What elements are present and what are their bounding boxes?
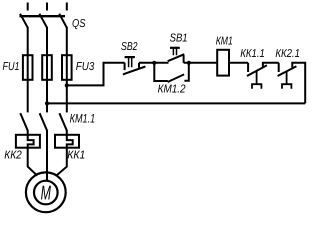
- supply terminal L3: [66, 3, 68, 11]
- thermal relay KK1 heater meander: [67, 135, 73, 148]
- svg-text:КК1: КК1: [67, 149, 85, 161]
- contact KK2.1 right terminal: [291, 64, 293, 68]
- fuse FU1: [23, 55, 33, 80]
- button SB1 right terminal: [183, 55, 185, 63]
- wire SB2 to SB1: [139, 62, 169, 64]
- fuse FU2: [42, 55, 52, 80]
- svg-text:КМ1.2: КМ1.2: [158, 84, 187, 96]
- switch QS pole 1 blade: [20, 14, 28, 28]
- wire KK1 to motor: [57, 148, 67, 176]
- wire L3 QS to fuse: [66, 27, 68, 55]
- thermal relay KK2 heater meander: [28, 135, 34, 148]
- contact KK1.1 thermal element: [252, 71, 261, 89]
- contactor KM1.1 pole 3 blade: [59, 113, 66, 130]
- svg-text:КК2.1: КК2.1: [275, 48, 300, 60]
- button SB2 left terminal: [124, 63, 126, 70]
- coil KM1: [217, 50, 229, 76]
- contact KK2.1 thermal element: [282, 71, 291, 89]
- wire L1 fuse to KM1.1: [27, 55, 29, 112]
- contactor KM1.1 pole 1 blade: [20, 113, 27, 130]
- contact KM1.2 left branch wire: [154, 63, 168, 81]
- contact KK2.1 blade: [278, 66, 297, 76]
- wire L2 QS to fuse: [46, 27, 48, 55]
- node KM1.2 branch left: [152, 61, 156, 65]
- contact KM1.2 blade: [168, 74, 185, 82]
- wire L1 QS to fuse: [27, 27, 29, 55]
- contact KK2.1 left terminal: [278, 63, 280, 72]
- switch QS pole 3 blade: [59, 14, 67, 28]
- svg-text:FU1: FU1: [3, 61, 20, 73]
- svg-text:КК2: КК2: [4, 149, 22, 161]
- node control tap phase 2: [45, 101, 49, 105]
- wire L1 KM1.1 to KK2: [27, 130, 29, 135]
- supply terminal L1: [27, 3, 29, 11]
- wire KK1.1 to KK2.1: [262, 62, 279, 64]
- wire control feed from phase3 tap: [67, 63, 125, 86]
- button SB1 plunger stem: [173, 48, 176, 55]
- svg-text:M: M: [41, 183, 52, 205]
- wire SB1 to KM1 coil: [184, 62, 218, 64]
- contact KM1.2 right branch wire: [184, 63, 188, 81]
- wire KM1 coil to KK1.1: [229, 62, 248, 64]
- svg-text:КМ1: КМ1: [216, 36, 233, 48]
- wire L3 KM1.1 to KK1: [66, 130, 68, 135]
- wire KK2 to motor: [28, 148, 38, 176]
- switch QS mechanical link bar: [20, 15, 66, 17]
- svg-text:FU3: FU3: [76, 61, 95, 73]
- thermal relay KK2 heater box: [16, 135, 40, 148]
- svg-text:КК1.1: КК1.1: [240, 48, 264, 60]
- button SB1 plunger cap: [170, 47, 180, 49]
- button SB2 plunger cap: [125, 56, 135, 58]
- supply terminal L2: [46, 3, 48, 11]
- motor M inner circle: [34, 181, 58, 205]
- wire bottom rail to phase2 tap: [47, 102, 305, 104]
- wire L2 fuse to KM1.1: [46, 55, 48, 112]
- thermal relay KK1 heater box: [55, 135, 79, 148]
- button SB2 plunger stem: [129, 57, 132, 67]
- node KM1.2 branch right: [187, 61, 191, 65]
- contact KK1.1 blade: [247, 65, 267, 76]
- wire L3 fuse to KM1.1: [66, 55, 68, 112]
- button SB2 right terminal: [138, 63, 140, 68]
- switch QS pole 2 blade: [39, 14, 47, 28]
- contactor KM1.1 pole 2 blade: [40, 113, 47, 130]
- fuse FU3: [62, 55, 72, 80]
- wire L2 KM1.1 to motor: [46, 130, 48, 181]
- motor M outer circle: [26, 172, 66, 212]
- wire KK2.1 to right edge and down: [291, 63, 305, 104]
- contact KK1.1 right terminal: [262, 64, 264, 68]
- contact KK1.1 left terminal: [247, 63, 249, 72]
- svg-text:QS: QS: [72, 18, 86, 30]
- button SB2 blade: [123, 67, 145, 75]
- button SB1 blade: [168, 54, 185, 61]
- svg-text:КМ1.1: КМ1.1: [70, 111, 96, 125]
- node control tap phase 3: [65, 83, 69, 87]
- svg-text:SB1: SB1: [170, 32, 188, 44]
- svg-text:SB2: SB2: [121, 41, 138, 53]
